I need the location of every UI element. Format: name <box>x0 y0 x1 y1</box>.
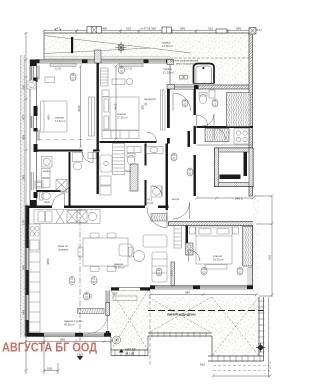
bedroom2 wardrobe bottom <box>102 131 139 139</box>
svg-text:36: 36 <box>144 102 148 106</box>
wall V4 hall right / living <box>166 144 169 211</box>
radiator hall <box>188 131 191 147</box>
corner drain dark marker <box>258 345 263 350</box>
svg-text:4415: 4415 <box>77 105 81 112</box>
svg-text:345: 345 <box>185 291 190 295</box>
svg-text:420: 420 <box>22 135 26 140</box>
bedroom3 bed <box>196 227 232 264</box>
svg-text:баня: баня <box>125 169 131 173</box>
bedroom3 nightstand R <box>233 227 239 234</box>
chimney box 2 <box>162 27 172 33</box>
left dim chain <box>25 33 27 374</box>
svg-text:хранене: хранене <box>58 249 69 252</box>
bedroom3 right exterior wall <box>253 224 257 289</box>
kitchen counter row <box>34 210 100 224</box>
bath-mid door <box>152 186 162 196</box>
svg-text:477: 477 <box>22 115 26 120</box>
wall V7 bedroom3 left <box>186 226 189 250</box>
svg-text:А 415: А 415 <box>147 202 154 205</box>
taper line 2 <box>44 48 150 54</box>
wall V4b bath right <box>145 144 147 166</box>
svg-text:сушилня пералня машина: сушилня пералня машина <box>170 61 199 63</box>
terrace left vert guide <box>149 289 151 366</box>
terrace edge left column bottom <box>111 350 148 356</box>
wardrobe hatch horizontal <box>205 129 229 142</box>
bedroom2 nightstand top <box>102 90 109 97</box>
right exterior wall upper (hatched) <box>249 33 253 196</box>
line izdadeni (projection line) <box>148 310 264 312</box>
svg-text:100: 100 <box>47 367 52 371</box>
top facade wall with windows <box>36 50 172 63</box>
svg-text:245.5: 245.5 <box>235 197 243 201</box>
svg-text:390: 390 <box>151 27 156 31</box>
svg-text:ЛИНИЯ ИЗДАДЕНИ: ЛИНИЯ ИЗДАДЕНИ <box>167 313 196 317</box>
svg-text:12 02: 12 02 <box>55 68 62 71</box>
svg-text:350: 350 <box>112 292 117 296</box>
bath-left toilet <box>41 193 50 200</box>
wall H6 utility divider <box>197 126 254 128</box>
wc-right sink <box>209 90 215 98</box>
inner dim bedroom2 <box>115 66 117 139</box>
laundry washer <box>42 157 53 168</box>
bedroom2 radiator right <box>161 90 166 130</box>
svg-text:А 477 В: А 477 В <box>141 27 150 31</box>
bath-left door <box>53 194 65 206</box>
terrace door arc living <box>88 315 108 334</box>
svg-text:4650: 4650 <box>46 258 50 265</box>
svg-text:460: 460 <box>102 27 107 31</box>
svg-text:антре: антре <box>172 198 180 201</box>
hall double doors top <box>173 93 191 111</box>
shower tray <box>100 155 112 172</box>
bedroom1 wardrobe <box>89 97 95 136</box>
terrace edge middle band bottom <box>148 333 212 336</box>
svg-text:АВГУСТА БГ ООД: АВГУСТА БГ ООД <box>2 341 97 355</box>
svg-text:47.30 m²: 47.30 m² <box>114 266 125 270</box>
sofa <box>143 235 167 247</box>
laundry door <box>61 183 71 193</box>
two dots top left <box>55 29 57 31</box>
dashed projection outline bottom right <box>213 361 270 372</box>
wall V1 bedroom1/bedroom2 <box>97 63 99 150</box>
bath-mid shaft <box>130 164 138 191</box>
elevator hall door <box>214 128 226 140</box>
ac unit outside wall <box>27 81 36 89</box>
svg-text:15.5: 15.5 <box>170 270 174 276</box>
stove right 4 rings <box>234 129 250 145</box>
bath-mid toilet <box>127 155 134 165</box>
bedroom1 dashed ceiling line <box>38 139 95 141</box>
slab edge line top <box>44 32 252 34</box>
terrace stipple left column <box>111 291 148 351</box>
bottom-left facade wall (living room) <box>26 333 112 337</box>
hall wardrobe block <box>151 214 167 222</box>
chimney box 1 <box>87 27 102 34</box>
svg-text:315: 315 <box>208 27 213 31</box>
wall V2 bedroom2 right <box>169 60 171 86</box>
svg-text:590: 590 <box>22 265 26 270</box>
bath-mid washer <box>151 186 162 197</box>
wall H3 laundry/bath divider <box>37 190 61 192</box>
bottom-left dim <box>26 341 112 343</box>
terrace diagonals <box>111 291 148 351</box>
living room right wall to terrace <box>106 290 110 337</box>
wall H2 bedroom2 bottom <box>100 141 157 143</box>
svg-text:12.35 m²: 12.35 m² <box>162 44 173 48</box>
bedroom1 dresser <box>45 77 55 83</box>
corner post top right <box>249 28 256 35</box>
wc-right toilet <box>199 94 206 104</box>
terrace edge right column <box>208 336 264 361</box>
bedroom3 nightstand L <box>190 227 196 234</box>
svg-text:170: 170 <box>22 220 26 225</box>
bedroom3 wardrobe hatch <box>243 227 253 267</box>
bedroom1 bed <box>41 101 68 132</box>
vent cross symbol <box>116 42 127 53</box>
wall V5 utility left <box>194 89 196 115</box>
small 100 dim <box>43 337 60 375</box>
tv cabinet <box>113 296 137 301</box>
taper line 1 <box>44 36 191 54</box>
svg-text:46.50 m²: 46.50 m² <box>64 323 75 327</box>
wardrobe hatch right-top (vertical) <box>227 93 251 127</box>
bedroom3 door <box>189 250 201 262</box>
svg-text:241.05: 241.05 <box>125 352 135 356</box>
svg-text:265: 265 <box>268 255 272 260</box>
wall V1b mokro right <box>97 152 99 194</box>
terrace stipple right block (laundry terrace) <box>170 60 252 86</box>
wall H5 bedroom3 top (hatched) <box>169 222 257 226</box>
svg-text:гардероб: гардероб <box>144 97 156 101</box>
svg-text:17.10 m²: 17.10 m² <box>55 119 66 123</box>
svg-text:място за сушене: място за сушене <box>176 64 195 66</box>
bedroom2 bed <box>102 97 139 130</box>
terrace stipple middle band <box>148 297 212 333</box>
terrace stipple right column <box>212 297 260 356</box>
party-wall hatch column above wall <box>95 50 102 63</box>
wall H4 hall/kitchen divider <box>26 206 53 209</box>
shelving column <box>113 144 125 175</box>
svg-text:47.5: 47.5 <box>147 198 153 202</box>
bath sink cells <box>127 147 141 153</box>
hatched wall right of laundry terrace <box>170 85 252 89</box>
svg-text:12.35 m²: 12.35 m² <box>163 71 174 75</box>
wall y=287.5 between living and terrace left part <box>111 288 150 291</box>
svg-text:12 02: 12 02 <box>126 68 133 71</box>
bedroom1 door <box>83 152 94 163</box>
svg-text:мокро: мокро <box>43 170 51 173</box>
mokro boiler <box>73 153 83 162</box>
svg-text:445: 445 <box>22 310 26 315</box>
dashed overhang line right <box>170 57 250 59</box>
svg-text:245: 245 <box>180 27 185 31</box>
svg-text:245: 245 <box>236 27 241 31</box>
drain circle symbol <box>113 336 121 344</box>
bedroom3 bottom facade wall with windows <box>150 286 257 290</box>
vent box 3 <box>216 29 227 33</box>
svg-text:315: 315 <box>22 85 26 90</box>
bath-mid sink <box>146 147 163 154</box>
bedroom2 dresser <box>112 79 125 85</box>
svg-text:15.10 m²: 15.10 m² <box>213 258 224 262</box>
radiator bedroom1 upper <box>37 66 40 140</box>
party wall stipple strip far left <box>21 55 25 337</box>
left exterior wall lower (kitchen/living, stepped out) <box>26 206 30 337</box>
railing ticks <box>115 301 265 362</box>
coffee table <box>134 251 145 262</box>
wc-right door <box>197 115 208 126</box>
bedroom3 bench <box>205 265 227 270</box>
living door big <box>147 208 167 228</box>
svg-text:610: 610 <box>200 363 205 367</box>
terrace bottom dim <box>213 375 270 377</box>
inner dim bedroom1 <box>80 66 82 147</box>
living/terrace niche wall <box>171 262 175 286</box>
bedroom2 wardrobe left <box>101 68 109 86</box>
top dim chain <box>44 30 252 32</box>
svg-text:4415: 4415 <box>114 103 118 110</box>
radiators under top windows <box>50 64 143 67</box>
bedroom3 bottom dim <box>150 294 257 296</box>
bath-left sink <box>35 181 43 188</box>
svg-text:345: 345 <box>22 175 26 180</box>
bath-left shower <box>56 180 67 191</box>
dining table <box>83 238 128 266</box>
bedroom2 door <box>147 132 157 142</box>
living tv-stand / radiator <box>78 309 105 314</box>
svg-text:17.35 m²: 17.35 m² <box>117 116 128 120</box>
terrace stipple band top <box>44 33 252 60</box>
left exterior wall upper <box>27 60 40 206</box>
bedroom3 radiator <box>248 268 252 286</box>
svg-text:455: 455 <box>47 115 51 120</box>
svg-text:баня: баня <box>44 200 50 204</box>
bedroom3 duct <box>186 243 194 255</box>
section line <box>79 209 81 361</box>
level mark <box>119 349 124 353</box>
svg-text:315: 315 <box>126 27 131 31</box>
hall arc right <box>173 203 190 220</box>
bedroom3 left wardrobe <box>174 226 182 249</box>
kitchen counter left vertical <box>29 224 40 332</box>
right dim chain <box>271 196 273 297</box>
wall V3 left column right <box>69 152 71 206</box>
wall H1 bedroom1 bottom <box>37 150 83 152</box>
armchair <box>119 244 132 256</box>
axis dash in band <box>71 37 73 53</box>
